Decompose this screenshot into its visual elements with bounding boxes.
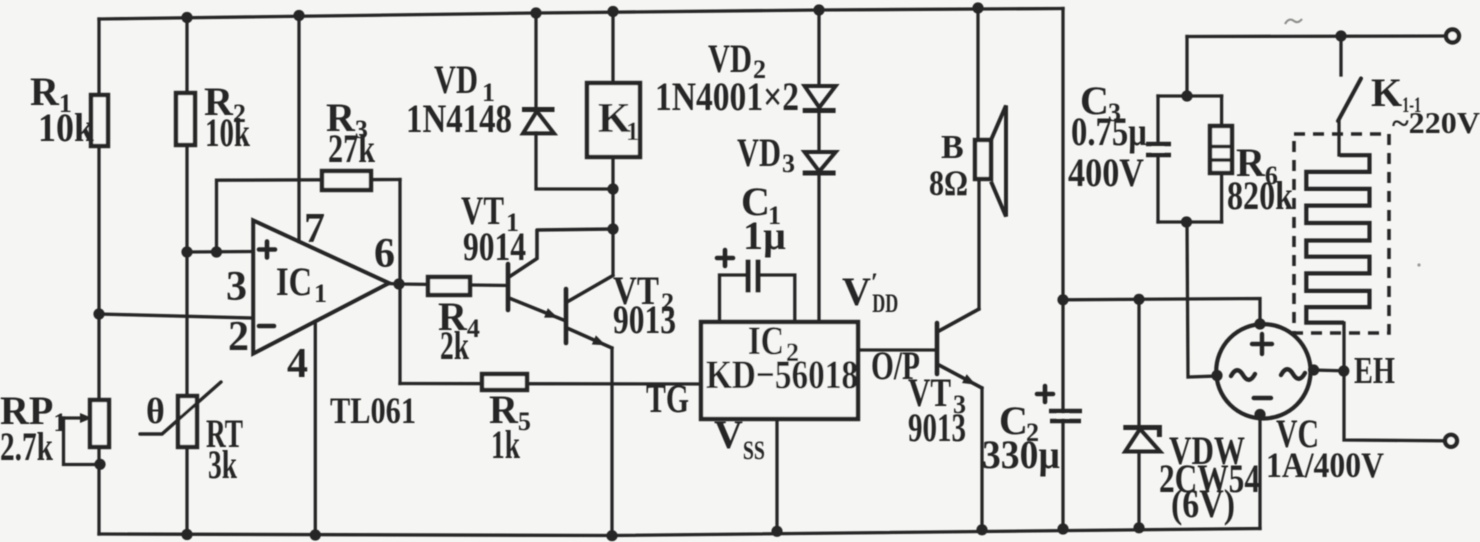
svg-text:1k: 1k: [491, 422, 521, 467]
svg-text:IC: IC: [276, 259, 312, 304]
svg-text:B: B: [941, 129, 964, 166]
svg-text:2: 2: [228, 314, 249, 360]
svg-text:TL061: TL061: [330, 391, 416, 432]
svg-text:3k: 3k: [208, 442, 238, 487]
svg-text:3: 3: [226, 264, 247, 310]
svg-text:1µ: 1µ: [743, 213, 786, 258]
svg-text:TG: TG: [646, 376, 689, 421]
svg-text:400V: 400V: [1068, 150, 1144, 195]
svg-text:7: 7: [304, 206, 325, 252]
svg-text:9013: 9013: [908, 405, 966, 450]
svg-text:9013: 9013: [613, 297, 676, 342]
svg-text:KD−56018: KD−56018: [706, 352, 858, 397]
svg-text:2.7k: 2.7k: [0, 424, 54, 469]
svg-text:1A/400V: 1A/400V: [1266, 445, 1384, 485]
svg-text:0.75µ: 0.75µ: [1071, 109, 1147, 154]
svg-text:1N4148: 1N4148: [406, 96, 512, 141]
svg-text:820k: 820k: [1227, 173, 1294, 218]
svg-text:(6V): (6V): [1171, 481, 1235, 526]
svg-text:27k: 27k: [328, 126, 376, 171]
svg-text:8Ω: 8Ω: [929, 163, 968, 203]
svg-text:1N4001×2: 1N4001×2: [655, 74, 799, 119]
svg-text:EH: EH: [1354, 350, 1395, 392]
svg-text:VD: VD: [737, 130, 781, 175]
svg-text:θ: θ: [146, 391, 165, 431]
svg-text:4: 4: [287, 341, 308, 387]
svg-text:1: 1: [626, 117, 639, 146]
svg-text:10k: 10k: [38, 105, 95, 150]
svg-text:2k: 2k: [440, 323, 470, 368]
svg-text:3: 3: [782, 149, 795, 178]
svg-text:6: 6: [374, 231, 395, 277]
svg-text:9014: 9014: [463, 224, 526, 269]
svg-text:330µ: 330µ: [982, 432, 1060, 477]
svg-text:~220V: ~220V: [1392, 105, 1480, 140]
svg-text:1: 1: [314, 279, 327, 308]
svg-text:10k: 10k: [205, 110, 251, 155]
